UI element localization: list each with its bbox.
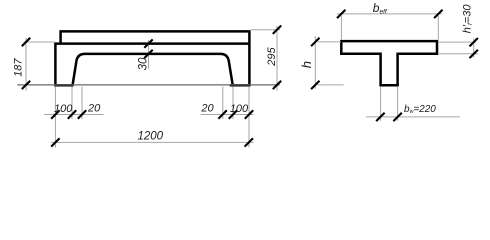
extension line: b_eff right bbox=[437, 16, 439, 40]
tick h'f top bbox=[470, 38, 478, 46]
tick 187 bottom bbox=[22, 81, 30, 89]
tick 1200 left bbox=[51, 138, 59, 146]
extension line: 187 top bbox=[24, 41, 55, 43]
tick h bottom bbox=[311, 81, 319, 89]
extension line: right leg inner down bbox=[232, 87, 234, 119]
left panel section: top flange strip bbox=[61, 31, 250, 43]
extension line: left leg inner down bbox=[71, 87, 73, 119]
svg-text:h: h bbox=[299, 61, 314, 68]
left panel section: body right edge bbox=[248, 44, 251, 86]
tick b_eff right bbox=[434, 10, 442, 18]
svg-text:295: 295 bbox=[266, 47, 278, 67]
tick bottom-right a bbox=[218, 110, 226, 118]
extension line: b_eff left bbox=[340, 16, 342, 40]
dimension b line bbox=[366, 116, 460, 118]
dimension line bottom-right (20,100) bbox=[201, 114, 254, 116]
extension line: h'f bottom bbox=[439, 53, 478, 55]
left panel section: left leg bottom bbox=[54, 84, 73, 87]
tick bottom-left c bbox=[78, 110, 86, 118]
T-section outline bbox=[341, 41, 437, 85]
tick 295 bottom bbox=[273, 81, 281, 89]
svg-text:100: 100 bbox=[230, 103, 249, 115]
tick bottom-right b bbox=[229, 110, 237, 118]
extension line: h bottom bbox=[317, 84, 343, 86]
extension line: body right down bbox=[248, 87, 250, 148]
left panel section: inner void outline bbox=[73, 54, 233, 86]
extension line: 295 top bbox=[251, 29, 280, 31]
dimension 1200 line bbox=[51, 141, 254, 143]
dimension b_eff line bbox=[337, 13, 442, 15]
tick 30 top bbox=[144, 39, 152, 47]
tick b_eff left bbox=[337, 10, 345, 18]
dimension 295 line bbox=[276, 26, 278, 91]
dimension h line bbox=[314, 36, 316, 89]
svg-text:20: 20 bbox=[200, 103, 214, 115]
svg-text:h'f=30: h'f=30 bbox=[461, 4, 474, 34]
extension line: right haunch down bbox=[222, 87, 224, 119]
left panel section: flange bottom line bbox=[54, 42, 250, 45]
dimension 30 line bbox=[148, 40, 150, 69]
tick 1200 right bbox=[245, 138, 253, 146]
tick b left bbox=[376, 113, 384, 121]
svg-text:beff: beff bbox=[373, 1, 388, 16]
tick bottom-right c bbox=[245, 110, 253, 118]
tick bottom-left a bbox=[51, 110, 59, 118]
extension line: b web left down bbox=[380, 87, 382, 121]
svg-text:20: 20 bbox=[87, 103, 101, 115]
tick h top bbox=[311, 38, 319, 46]
svg-text:bw=220: bw=220 bbox=[404, 104, 436, 115]
tick bottom-left b bbox=[68, 110, 76, 118]
svg-text:187: 187 bbox=[12, 58, 24, 77]
extension line: b web right down bbox=[397, 87, 399, 121]
left panel section: right leg bottom bbox=[230, 84, 251, 87]
tick h'f bottom bbox=[470, 50, 478, 58]
svg-text:1200: 1200 bbox=[138, 131, 164, 143]
extension line: h'f top bbox=[439, 41, 476, 43]
dimension line bottom-left (100,20) bbox=[44, 114, 104, 116]
tick 187 top bbox=[22, 38, 30, 46]
tick b right bbox=[393, 113, 401, 121]
extension line: long bottom line y85.3 bbox=[17, 84, 279, 86]
dimension h'f line bbox=[473, 39, 475, 58]
svg-text:30: 30 bbox=[137, 57, 149, 70]
svg-text:100: 100 bbox=[54, 103, 73, 115]
extension line: body left down bbox=[54, 87, 56, 148]
left panel section: body left edge bbox=[54, 44, 57, 86]
tick 30 bottom bbox=[144, 50, 152, 58]
extension line: h top bbox=[318, 41, 342, 43]
dimension 187 line bbox=[25, 38, 27, 91]
tick 295 top bbox=[273, 26, 281, 34]
extension line: left haunch down bbox=[81, 87, 83, 119]
